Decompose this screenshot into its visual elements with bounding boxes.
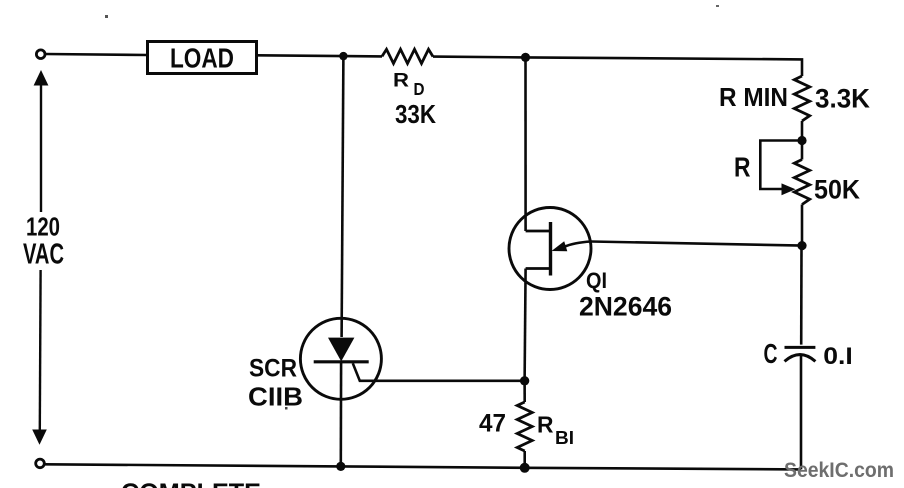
load box L1 xyxy=(148,42,257,74)
SCR gate lead xyxy=(353,363,525,381)
wire node A down to SCR anode xyxy=(342,56,344,337)
wire capacitor to bottom rail xyxy=(800,356,803,469)
wire node A to resistor RD xyxy=(343,55,382,58)
resistor RB1 zigzag xyxy=(517,402,532,451)
Q1 base-two lead xyxy=(526,230,551,233)
wire RD to node B xyxy=(433,55,526,58)
Q1 base-one lead xyxy=(526,267,551,270)
svg-text:50K: 50K xyxy=(814,175,860,205)
resistor R MIN 3.3K zigzag xyxy=(794,76,809,121)
wire node B to top-right corner xyxy=(526,57,803,76)
svg-text:47: 47 xyxy=(479,411,506,438)
label RB1 xyxy=(537,412,574,449)
wire RB1 to bottom rail node G xyxy=(523,451,526,468)
transistor Q1 UJT circle xyxy=(509,208,591,290)
bottom rail wire xyxy=(45,464,801,469)
wire node C to pot top xyxy=(801,141,804,160)
svg-text:R: R xyxy=(734,152,751,183)
svg-text:VAC: VAC xyxy=(23,239,64,271)
node B junction dot xyxy=(521,53,530,62)
node F junction dot xyxy=(336,462,345,471)
wire top from terminal to LOAD xyxy=(46,54,148,55)
SCR triangle xyxy=(328,338,354,362)
node C junction dot xyxy=(797,136,806,145)
svg-text:BI: BI xyxy=(555,427,574,448)
svg-text:R MIN: R MIN xyxy=(719,82,788,112)
wire emitter of Q1 to node D xyxy=(591,242,802,246)
Q1 emitter arrowhead xyxy=(552,241,568,251)
svg-text:CIIB: CIIB xyxy=(248,382,303,412)
wire node E to resistor RB1 xyxy=(523,381,526,402)
wiper loop wire of pot R xyxy=(760,141,802,190)
label RD xyxy=(393,71,425,100)
svg-text:3.3K: 3.3K xyxy=(815,83,870,113)
SCR cathode bar xyxy=(314,360,369,363)
node D junction dot xyxy=(797,241,806,250)
node E junction dot xyxy=(520,376,529,385)
speck top-right xyxy=(716,5,719,7)
svg-text:LOAD: LOAD xyxy=(170,43,234,74)
svg-text:120: 120 xyxy=(26,212,60,242)
node A junction dot xyxy=(339,52,347,60)
wire pot bottom to node D xyxy=(801,205,804,246)
svg-text:33K: 33K xyxy=(395,99,436,129)
terminal top-left xyxy=(36,50,45,59)
svg-text:0.I: 0.I xyxy=(823,344,853,370)
resistor RD zigzag xyxy=(382,49,433,63)
potentiometer R 50K zigzag xyxy=(794,160,809,205)
svg-text:SCR: SCR xyxy=(249,356,297,383)
wire node B down to Q1 base-two xyxy=(524,57,527,231)
wire SCR cathode down to bottom rail xyxy=(339,362,342,466)
svg-text:C: C xyxy=(764,338,778,369)
svg-text:D: D xyxy=(414,79,425,99)
speck left of SCR xyxy=(285,407,288,410)
Q1 base bar xyxy=(549,222,552,276)
Q1 emitter curve xyxy=(564,242,591,248)
speck top-left xyxy=(105,15,108,18)
terminal bottom-left xyxy=(36,459,45,468)
capacitor C plates xyxy=(785,347,816,361)
wire node D down to capacitor C xyxy=(800,246,803,345)
wire Q1 base-one down to node E xyxy=(525,269,526,381)
svg-text:2N2646: 2N2646 xyxy=(579,292,672,322)
120 VAC source arrows xyxy=(32,70,48,445)
svg-text:COMPLETE: COMPLETE xyxy=(121,479,261,488)
wire LOAD to node A xyxy=(257,54,343,57)
svg-text:R: R xyxy=(393,71,409,92)
SCR circle xyxy=(300,318,381,399)
wiper arrowhead xyxy=(782,183,796,195)
node G junction dot xyxy=(520,463,530,473)
wire 3.3K to node C xyxy=(801,121,804,141)
svg-text:QI: QI xyxy=(586,268,607,293)
svg-text:R: R xyxy=(537,412,554,438)
svg-text:SeekIC.com: SeekIC.com xyxy=(784,459,894,482)
